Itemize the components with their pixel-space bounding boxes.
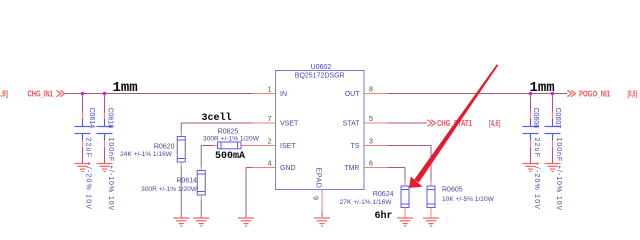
resistor R0624 <box>401 186 409 208</box>
svg-text:C0618: C0618 <box>107 108 114 129</box>
pin number 2 <box>268 139 272 146</box>
svg-text:TS: TS <box>351 143 360 150</box>
pin name TMR <box>344 165 359 172</box>
ground under GND pin <box>238 218 254 226</box>
pin 4 stub (GND) <box>252 167 276 169</box>
svg-text:EPAD: EPAD <box>315 168 322 189</box>
port CHG_IN1 <box>28 89 65 98</box>
svg-text:IN: IN <box>280 91 287 98</box>
svg-text:6: 6 <box>369 161 373 168</box>
resistor R0605 <box>427 186 435 208</box>
R0625 value <box>203 135 260 142</box>
svg-text:R0605: R0605 <box>442 187 463 194</box>
svg-text:U0602: U0602 <box>311 64 332 71</box>
svg-text:R0625: R0625 <box>218 128 239 135</box>
svg-text:[8,9]: [8,9] <box>628 89 638 98</box>
wire ISET right of R0625 <box>241 145 252 147</box>
ground under EPAD <box>314 218 330 226</box>
junction at C0618 <box>103 92 107 96</box>
R0605 designator <box>442 187 463 194</box>
pin 5 stub (STAT) <box>364 122 388 124</box>
C0618 value <box>107 138 114 212</box>
pin number 3 <box>369 139 373 146</box>
svg-text:R0614: R0614 <box>176 177 197 184</box>
svg-text:500mA: 500mA <box>215 151 245 162</box>
wire down to C0618 <box>104 94 106 119</box>
C0607 value <box>555 138 562 212</box>
pin name OUT <box>345 91 361 98</box>
wire VSET to R0620 <box>181 123 252 137</box>
annotation 6hr <box>375 210 393 222</box>
svg-text:BQ25172DSGR: BQ25172DSGR <box>295 73 345 80</box>
svg-text:[4,6]: [4,6] <box>489 119 501 128</box>
svg-text:9: 9 <box>312 196 319 200</box>
wire R0620 to ground <box>180 162 182 218</box>
resistor R0620 <box>177 137 185 163</box>
svg-text:STAT: STAT <box>343 121 361 128</box>
R0605 value <box>442 196 495 203</box>
pin number 5 <box>369 116 373 123</box>
C0618 designator <box>107 108 114 129</box>
svg-text:24K +/-1% 1/16W: 24K +/-1% 1/16W <box>120 151 173 158</box>
svg-text:5: 5 <box>369 116 373 123</box>
svg-text:22uF +/-20% 10V: 22uF +/-20% 10V <box>85 138 92 211</box>
svg-text:100nF +/-10% 10V: 100nF +/-10% 10V <box>555 138 562 212</box>
wire R0624 to ground <box>404 208 406 218</box>
svg-text:C0606: C0606 <box>532 108 539 129</box>
port POGO_NI1 <box>568 89 611 98</box>
svg-text:[4,9]: [4,9] <box>0 89 8 98</box>
wire TMR to R0624 <box>388 168 405 187</box>
R0614 value <box>141 186 198 193</box>
svg-text:CHG_IN1: CHG_IN1 <box>28 89 54 98</box>
pin 3 stub (TS) <box>364 145 388 147</box>
pin number 7 <box>268 116 272 123</box>
wire C0606 to ground <box>530 141 532 164</box>
junction at C0606 <box>529 92 533 96</box>
capacitor C0606 <box>523 119 539 141</box>
R0625 designator <box>218 128 239 135</box>
svg-text:POGO_NI1: POGO_NI1 <box>579 89 610 98</box>
pin name VSET <box>280 121 299 128</box>
wire OUT to POGO port <box>388 93 567 95</box>
svg-text:8: 8 <box>369 87 373 94</box>
capacitor C0618 <box>97 119 113 141</box>
annotation 500mA <box>215 151 245 162</box>
svg-text:3cell: 3cell <box>202 112 232 124</box>
svg-text:4: 4 <box>268 161 272 168</box>
pin 7 stub (VSET) <box>252 122 276 124</box>
net reference [4,9] (clipped at left edge) <box>0 89 8 98</box>
pin name TS <box>351 143 360 150</box>
junction at C0614 <box>81 92 85 96</box>
C0606 value <box>533 138 540 211</box>
ground under C0606 <box>523 164 539 172</box>
capacitor C0607 <box>545 119 561 141</box>
pin number 6 <box>369 161 373 168</box>
C0607 designator <box>554 108 561 129</box>
pin name ISET <box>280 143 296 150</box>
resistor R0614 <box>197 171 205 196</box>
svg-text:C0614: C0614 <box>88 108 95 129</box>
IC U0602 BQ25172DSGR <box>276 64 365 190</box>
svg-text:R0620: R0620 <box>154 143 175 150</box>
svg-text:OUT: OUT <box>345 91 361 98</box>
R0624 value <box>340 199 393 206</box>
svg-text:1mm: 1mm <box>113 80 138 96</box>
port CHG_STAT1 <box>428 119 473 128</box>
wire STAT to port <box>388 122 427 124</box>
capacitor C0614 <box>75 119 91 141</box>
pin 2 stub (ISET) <box>252 145 276 147</box>
pin 8 stub (OUT) <box>364 93 388 95</box>
svg-text:27K +/-1% 1/16W: 27K +/-1% 1/16W <box>340 199 393 206</box>
svg-text:R0624: R0624 <box>373 191 394 198</box>
wire C0618 to ground <box>104 141 106 164</box>
pin name IN <box>280 91 287 98</box>
pin number 1 <box>268 87 272 94</box>
pin 1 stub (IN) <box>252 93 276 95</box>
ground under R0605 <box>423 218 439 226</box>
annotation 3cell <box>202 112 232 124</box>
svg-text:ISET: ISET <box>280 143 296 150</box>
wire down to C0614 <box>82 94 84 119</box>
ground under C0607 <box>545 164 561 172</box>
pin name STAT <box>343 121 361 128</box>
annotation arrow pointing at R0624 <box>409 64 498 188</box>
net reference [8,9] <box>628 89 638 98</box>
resistor R0625 <box>218 142 242 149</box>
R0620 value <box>120 151 173 158</box>
svg-text:GND: GND <box>280 165 296 172</box>
svg-text:22uF +/-20% 10V: 22uF +/-20% 10V <box>533 138 540 211</box>
ground under R0620 <box>173 218 189 226</box>
pin 9 stub (EPAD) <box>321 190 323 218</box>
svg-text:10K +/-5% 1/20W: 10K +/-5% 1/20W <box>442 196 495 203</box>
wire down to C0606 <box>530 94 532 119</box>
svg-text:1mm: 1mm <box>530 80 555 96</box>
svg-text:1: 1 <box>268 87 272 94</box>
C0614 value <box>85 138 92 211</box>
wire R0614 to ground <box>200 195 202 218</box>
svg-text:2: 2 <box>268 139 272 146</box>
net reference [4,6] <box>489 119 501 128</box>
R0624 designator <box>373 191 394 198</box>
wire CHG_IN1 to IC pin IN <box>64 93 252 95</box>
pin number 9 (EPAD) <box>312 196 319 200</box>
svg-text:300R +/-1% 1/20W: 300R +/-1% 1/20W <box>203 135 260 142</box>
svg-text:C0607: C0607 <box>554 108 561 129</box>
pin name GND <box>280 165 296 172</box>
ground under R0624 <box>397 218 413 226</box>
wire TS to R0605 <box>388 146 431 187</box>
ground under C0614 <box>75 164 91 172</box>
C0606 designator <box>532 108 539 129</box>
annotation 1mm (left) <box>113 80 138 96</box>
svg-text:TMR: TMR <box>344 165 359 172</box>
ground under R0614 <box>193 218 209 226</box>
pin name EPAD <box>315 168 322 189</box>
wire down to C0607 <box>552 94 554 119</box>
ground under C0618 <box>97 164 113 172</box>
wire GND to ground <box>246 168 252 218</box>
svg-text:6hr: 6hr <box>375 210 393 222</box>
pin number 4 <box>268 161 272 168</box>
wire C0614 to ground <box>82 141 84 164</box>
annotation 1mm (right) <box>530 80 555 96</box>
wire C0607 to ground <box>552 141 554 164</box>
svg-text:100nF +/-10% 10V: 100nF +/-10% 10V <box>107 138 114 212</box>
svg-text:VSET: VSET <box>280 121 299 128</box>
pin 6 stub (TMR) <box>364 167 388 169</box>
pin number 8 <box>369 87 373 94</box>
R0614 designator <box>176 177 197 184</box>
wire R0605 to ground <box>430 208 432 218</box>
wire ISET left of R0625 to corner and down to R0614 <box>201 146 217 171</box>
C0614 designator <box>88 108 95 129</box>
R0620 designator <box>154 143 175 150</box>
junction at C0607 <box>551 92 555 96</box>
svg-text:300R +/-1% 1/20W: 300R +/-1% 1/20W <box>141 186 198 193</box>
svg-text:3: 3 <box>369 139 373 146</box>
svg-text:7: 7 <box>268 116 272 123</box>
